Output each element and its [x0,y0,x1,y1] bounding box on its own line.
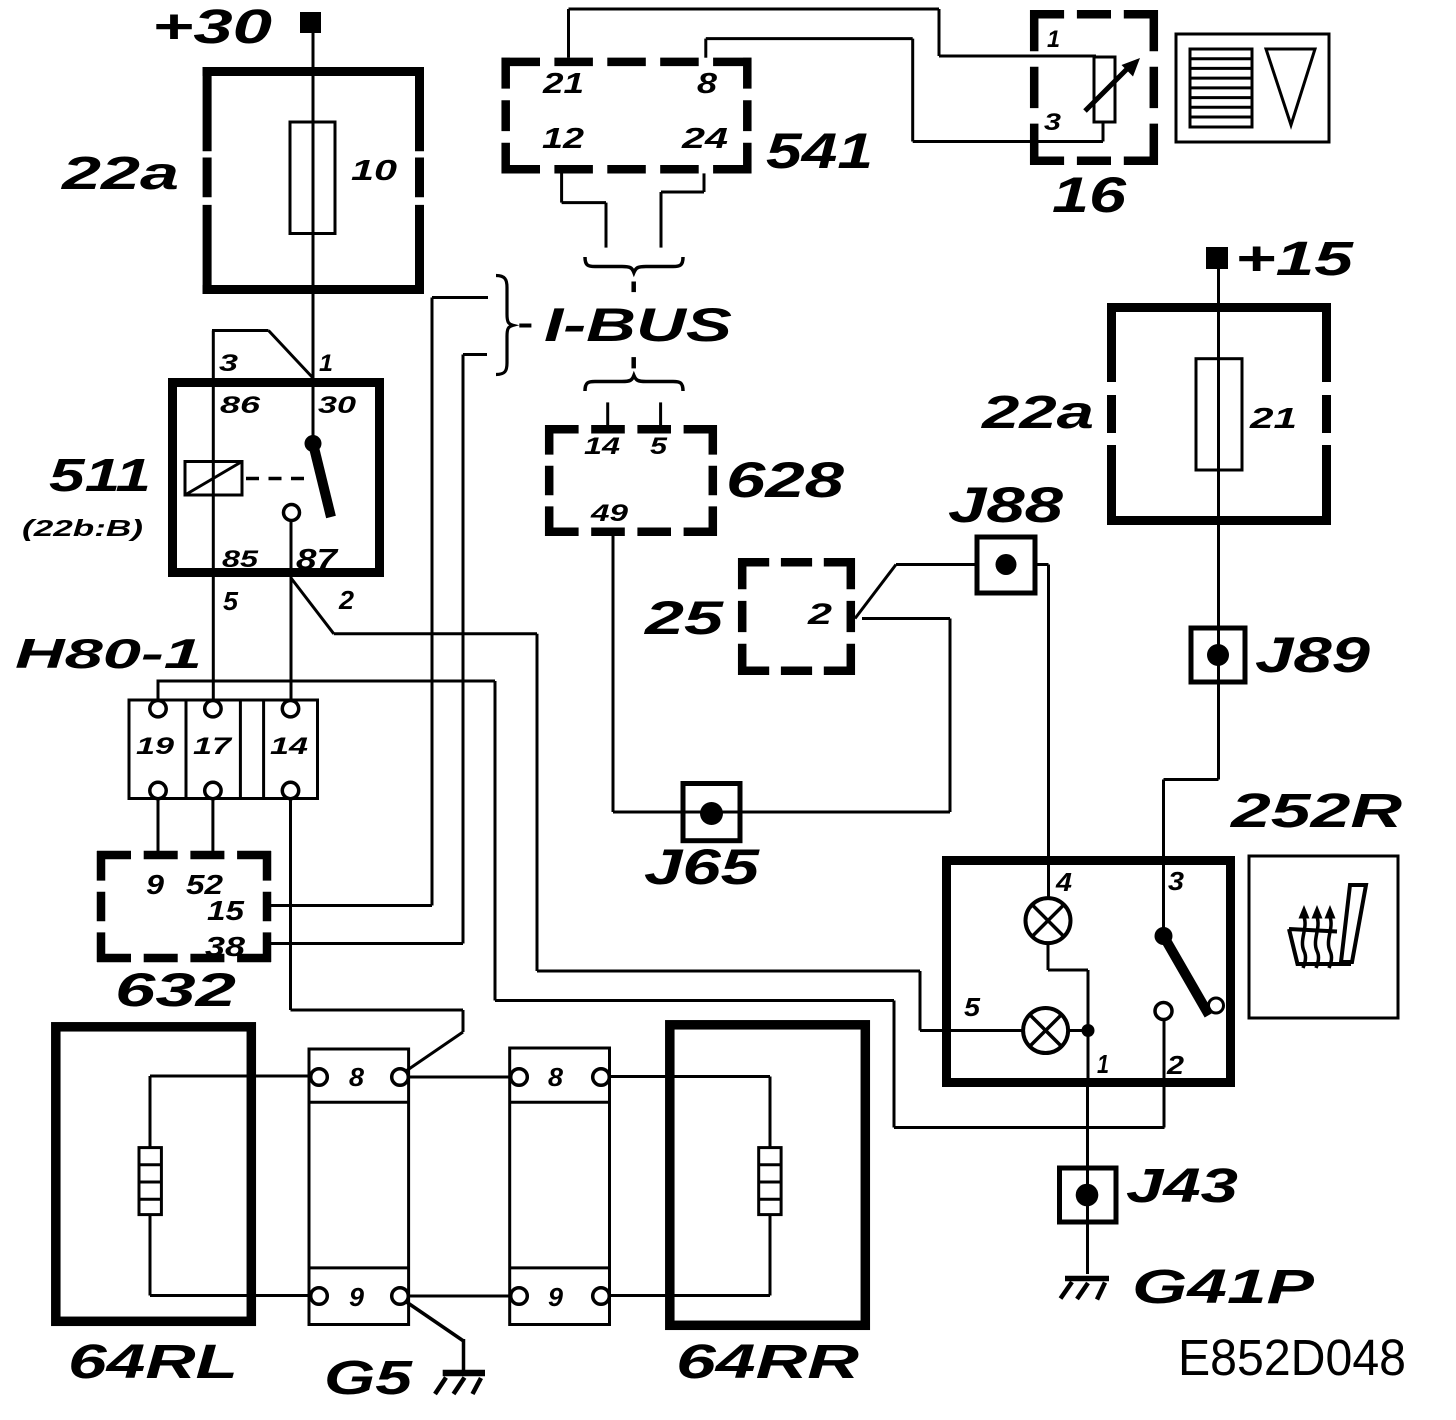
wire 541 pin12 down to I-BUS [562,173,606,247]
svg-text:5: 5 [223,586,239,616]
svg-text:J88: J88 [948,477,1063,533]
svg-text:9: 9 [349,1282,365,1312]
wire H80-1 pin17 bottom to 632 pin52 [211,799,214,851]
svg-text:30: 30 [318,392,357,419]
ground symbol G41P [1061,1279,1110,1300]
svg-text:14: 14 [584,433,620,460]
svg-text:511: 511 [49,449,151,501]
fuse box 22a (left) [203,67,424,294]
svg-text:14: 14 [270,733,308,760]
connector H80-1 block [129,700,318,799]
svg-text:J65: J65 [644,839,761,895]
svg-text:541: 541 [766,123,873,179]
heater element 64RL box [56,1027,252,1322]
wire 541 pin8 to 16 pin3 [706,39,1103,142]
svg-text:64RR: 64RR [676,1336,860,1389]
svg-text:632: 632 [115,963,236,1016]
svg-text:5: 5 [964,992,981,1022]
svg-text:1: 1 [1097,1049,1109,1079]
wire J89 to 252R pin3 [1164,780,1219,937]
svg-text:G5: G5 [324,1352,414,1405]
svg-text:38: 38 [205,931,246,962]
svg-text:49: 49 [590,500,629,527]
svg-text:21: 21 [542,68,584,100]
unit 541 dashed box [502,58,752,174]
node +15 terminal [1206,233,1355,286]
I-BUS dash after brace [519,324,531,328]
svg-text:17: 17 [193,733,233,760]
splice J65 [683,784,740,841]
svg-text:4: 4 [1055,867,1073,897]
relay dashed link [246,477,312,481]
relay 511 box [173,383,380,573]
unit 25 dashed box [738,558,855,675]
svg-text:2: 2 [807,598,833,631]
G5 ground drop [405,1301,464,1371]
svg-text:8: 8 [349,1062,365,1092]
I-BUS upper brace [585,257,683,273]
svg-text:5: 5 [650,433,668,460]
svg-text:252R: 252R [1230,785,1403,838]
wire 632 pin38 to I-BUS [271,355,487,944]
svg-text:I-BUS: I-BUS [544,298,732,351]
wire G5 block1 to block2 (bottom) [409,1295,511,1298]
svg-text:1: 1 [1047,26,1060,53]
svg-text:15: 15 [207,895,244,926]
pin 2 diagonal below relay [291,578,334,634]
switch arm [1164,936,1210,1015]
splice J88 [977,537,1035,593]
switch unit 252R box [947,861,1231,1083]
wire: vertical x=920 [919,971,922,1031]
switch contact circle (arm end) [1209,998,1224,1013]
unit 16 dashed box [1030,10,1158,165]
64RR resistor [759,1148,781,1215]
wire lamp2 to junction [1068,1029,1088,1032]
svg-text:87: 87 [296,544,339,576]
wire: vertical x=537 [536,634,539,971]
svg-text:3: 3 [1044,109,1062,136]
wire 628 pin49 to J65 [613,536,950,812]
seat icon [1289,885,1366,964]
svg-text:E852D048: E852D048 [1178,1329,1406,1386]
svg-text:3: 3 [1168,866,1185,896]
junction dot [1082,1024,1095,1037]
I-BUS dashed bus line (upper) [631,282,636,293]
relay contact 87 circle [284,505,300,521]
indicator triangle [1266,49,1315,125]
I-BUS left brace [496,276,513,375]
potentiometer arrow [1085,68,1128,111]
svg-text:86: 86 [220,392,261,419]
fuse 21 [1196,359,1242,470]
ground symbol (G5) [435,1373,485,1394]
potentiometer in 16 [1094,57,1115,142]
wires I-BUS to 628 pins [608,402,661,425]
64RL resistor [139,1148,161,1215]
wire junction to pin1 [1087,1031,1090,1088]
unit 632 dashed box [97,851,271,962]
svg-text:+15: +15 [1235,233,1355,286]
connector G5 block 1 [309,1049,409,1325]
lamp 2 (pin 5) [1023,1008,1068,1053]
relay switch pivot dot [305,435,322,452]
svg-text:21: 21 [1249,403,1297,435]
svg-text:3: 3 [219,350,239,377]
fuse 10 [290,122,335,234]
wire relay pin2 to 252R pin5: horizontal y=633.8 [334,632,537,635]
svg-text:8: 8 [548,1062,564,1092]
svg-text:16: 16 [1052,167,1128,223]
heater indicator icon box [1176,34,1329,142]
svg-text:12: 12 [542,123,584,155]
svg-text:22a: 22a [981,386,1094,438]
I-BUS dashed bus line (lower) [631,357,636,368]
node +30 terminal [152,1,321,54]
unit 628 dashed box [545,425,717,536]
wire to J88 [896,563,977,566]
relay coil [185,462,242,496]
wire 252R pin1 to ground [1086,1087,1089,1274]
fuse box 22a (right) [1107,303,1331,525]
lamp 1 (pin 4) [1026,898,1071,943]
heater element 64RR box [670,1025,866,1326]
wire 541 pin21 to 16 pin1 [569,9,1097,58]
svg-text:19: 19 [136,733,175,760]
svg-text:8: 8 [697,68,718,100]
wire H80-1 pin19 bottom to 632 pin9 [157,799,160,851]
svg-text:1: 1 [319,350,333,377]
svg-text:2: 2 [1166,1050,1185,1080]
svg-text:22a: 22a [60,147,179,199]
connector pin 3 above relay [212,331,269,379]
switch contact circle (pin 2) [1155,1003,1172,1020]
svg-text:(22b:B): (22b:B) [22,515,143,541]
relay switch arm [313,444,331,518]
svg-text:G41P: G41P [1132,1261,1315,1314]
wire J88 to 252R pin4 [1035,565,1049,899]
wire: horizontal into 252R pin5 [920,1029,1023,1032]
svg-text:10: 10 [351,155,397,187]
wire 252R pin2 down [1163,1020,1166,1128]
svg-text:24: 24 [681,123,728,155]
svg-text:9: 9 [146,869,164,900]
64RR wires [609,1077,770,1296]
H80-1 pin circles [150,701,299,799]
wire 632 pin15 to I-BUS [271,298,488,906]
seat heater icon box [1249,856,1398,1018]
wire +30 to relay pin 30 [312,33,315,444]
connector G5 block 2 [510,1048,610,1325]
relay pin 86/85 wire [212,378,215,701]
seat heat arrows [1299,905,1310,919]
svg-text:2: 2 [338,585,355,615]
svg-text:25: 25 [644,591,725,644]
svg-text:9: 9 [548,1282,564,1312]
switch pivot dot (pin 3) [1155,927,1173,945]
svg-text:J43: J43 [1126,1160,1238,1213]
relay pin 87 wire [290,521,293,701]
wire 541 pin24 down to I-BUS [661,173,704,247]
seat heat squiggles [1302,917,1331,968]
splice J43 [1060,1168,1117,1222]
svg-text:64RL: 64RL [68,1336,238,1389]
connector pin 1 above relay (diagonal) [269,331,314,379]
svg-text:+30: +30 [152,1,272,54]
heater grid [1190,49,1252,127]
splice J89 [1191,628,1245,682]
svg-text:J89: J89 [1255,627,1370,683]
wire +15 through fuse 21 to J89 [1217,269,1220,780]
svg-text:H80-1: H80-1 [15,630,202,677]
wire H80-1 pin19 top to 252R pin2 [157,681,1165,1128]
wire: horizontal y=971 [537,970,920,973]
wire G5 block1 to block2 (top) [409,1076,511,1079]
svg-text:628: 628 [726,452,844,508]
svg-text:85: 85 [222,546,259,573]
I-BUS lower brace [585,376,683,392]
25 pin2 connector diagonal [855,565,896,619]
wire lamp1 to junction [1048,943,1088,1030]
64RL wires [150,1076,311,1296]
wire H80-1 pin14 bottom to G5 splice [291,799,464,1071]
